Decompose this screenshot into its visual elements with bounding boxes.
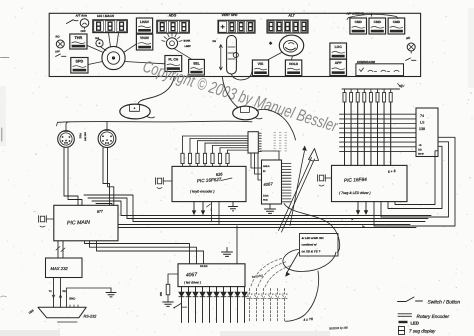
- legend LED: [399, 321, 419, 326]
- legend rotary encoder: [398, 314, 450, 319]
- IC U7 MAX232: [46, 258, 83, 278]
- svg-text:THR: THR: [74, 36, 82, 40]
- bus line b1: [121, 215, 431, 217]
- wire GND to DB9: [67, 288, 112, 307]
- label on U4 outs: [351, 218, 365, 229]
- bus line b4: [118, 224, 410, 226]
- resistor network RN1 (pull-ups) with fan-out wires: [181, 136, 248, 166]
- svg-text:IN: IN: [263, 170, 266, 173]
- A/P DISENGAGE label: [346, 12, 399, 20]
- svg-text:4 x Y6: 4 x Y6: [303, 317, 313, 322]
- wire loop n2: [381, 142, 449, 217]
- wire U1 data out a: [192, 202, 196, 216]
- svg-text:( led driver ): ( led driver ): [184, 281, 201, 285]
- button CMD R: [388, 18, 405, 34]
- svg-text:Copyright © 2003 by Manuel Bes: Copyright © 2003 by Manuel Bessler: [140, 57, 340, 136]
- svg-text:16ch: 16ch: [263, 195, 269, 198]
- left knob RO (panel): [55, 36, 66, 57]
- svg-text:4x LED w/WD 390: 4x LED w/WD 390: [302, 237, 324, 240]
- bus panel rows to U3: [340, 114, 417, 151]
- speed knob K1: [87, 33, 165, 70]
- crystal X2: [318, 175, 332, 186]
- wire loop n4: [395, 151, 438, 205]
- wire U5 to U6 a: [85, 241, 190, 264]
- note box: [300, 234, 339, 257]
- svg-text:ANLG: ANLG: [263, 165, 270, 168]
- V/S wheel: [213, 36, 253, 80]
- wire dashed led curves: [251, 258, 291, 287]
- MCP panel outline: [49, 13, 420, 76]
- button CMD L: [350, 18, 367, 34]
- svg-text:mini DIN: mini DIN: [84, 132, 87, 141]
- wire DIN1 stub: [66, 122, 70, 131]
- svg-text:SPD: SPD: [75, 60, 83, 64]
- svg-text:PIC 16F84: PIC 16F84: [344, 177, 368, 184]
- svg-text:DB9: DB9: [28, 308, 35, 315]
- svg-text:BANK: BANK: [184, 40, 191, 43]
- svg-text:PS/2: PS/2: [79, 133, 82, 139]
- button FL CH: [165, 56, 182, 72]
- bus corner c4: [96, 204, 112, 206]
- wire J1 to U2: [260, 151, 279, 160]
- wire U5 to MAX232 a: [56, 241, 60, 258]
- wire MAX232 Rx: [59, 278, 66, 308]
- connector DIN2 (PS/2): [98, 130, 116, 148]
- disengage bar: [356, 60, 404, 76]
- ground G4: [163, 302, 174, 307]
- svg-text:GND: GND: [69, 297, 75, 301]
- wire U5 to U6 b: [90, 241, 197, 264]
- svg-text:decdr: decdr: [418, 153, 424, 156]
- trackball mouse M1: [120, 104, 155, 119]
- button HOLD: [285, 60, 301, 76]
- svg-text:FL CH: FL CH: [168, 58, 178, 62]
- ground G3: [106, 288, 116, 297]
- svg-text:MAX 232: MAX 232: [51, 266, 69, 271]
- LED array (future) D11-D16 dashed: [247, 289, 287, 323]
- svg-text:( keyb encoder ): ( keyb encoder ): [190, 190, 215, 194]
- connector DIN1 (PS/2): [58, 131, 75, 148]
- legend 7seg: [399, 327, 437, 335]
- button LOC: [330, 43, 347, 59]
- svg-text:6 + 8: 6 + 8: [388, 169, 396, 174]
- svg-text:RO: RO: [56, 36, 60, 39]
- svg-text:ALT: ALT: [287, 14, 295, 18]
- wire DIN1 to PIC-main b: [68, 147, 82, 205]
- svg-text:CMD: CMD: [374, 20, 382, 24]
- svg-text:OFF: OFF: [55, 51, 60, 54]
- svg-text:4067: 4067: [186, 272, 198, 279]
- svg-text:LS: LS: [420, 121, 425, 125]
- wire DIN2 stub: [106, 122, 108, 130]
- VERT SPD display DS3: [218, 13, 255, 33]
- bus corner c2: [88, 198, 127, 219]
- svg-text:HOLD: HOLD: [289, 62, 299, 66]
- svg-text:RS-232: RS-232: [84, 315, 98, 319]
- legend switch: [398, 297, 461, 306]
- arrow thin: [290, 146, 307, 226]
- wire U4 out a: [356, 202, 360, 215]
- bus corner c3: [92, 201, 121, 216]
- wire U1 out d: [218, 202, 220, 225]
- wire U5 to U6 c: [97, 241, 204, 264]
- wire panel to trackball: [138, 77, 174, 104]
- U2 channel pins: [282, 164, 292, 202]
- bus line b5: [118, 227, 416, 229]
- wire PS/2 bus: [57, 121, 253, 126]
- svg-text:A/T Arm: A/T Arm: [75, 13, 88, 17]
- wire DIN2 to PIC-main a: [103, 148, 110, 206]
- svg-text:Dt: Dt: [362, 226, 365, 229]
- wire loop n1: [374, 137, 455, 226]
- label PS/2 mini-DIN: [79, 132, 87, 141]
- svg-text:PIC 16F627: PIC 16F627: [197, 177, 222, 184]
- svg-text:LOC: LOC: [335, 45, 343, 49]
- svg-text:VNAV: VNAV: [140, 36, 150, 40]
- crystal X3: [39, 216, 54, 227]
- button V/S: [252, 60, 268, 76]
- svg-text:CMD: CMD: [355, 20, 363, 24]
- ground under U2: [265, 204, 276, 213]
- IAS select knob: [95, 37, 103, 47]
- resistor network RN2 (display pull-ups): [343, 89, 392, 165]
- svg-text:4067: 4067: [263, 181, 273, 187]
- crystal X1: [156, 178, 173, 189]
- resistor R1 390: [159, 274, 178, 302]
- button LNAV: [136, 18, 152, 33]
- switch S2: [173, 304, 186, 309]
- svg-text:Switch / Button: Switch / Button: [428, 300, 461, 306]
- button VNAV: [136, 34, 152, 50]
- wire loop n3: [388, 146, 442, 208]
- signature: [329, 326, 348, 331]
- node mark: [269, 41, 273, 45]
- IAS/MACH display DS1: [93, 14, 128, 32]
- button THR: [70, 34, 87, 49]
- svg-text:05/2003 by MB: 05/2003 by MB: [329, 326, 348, 331]
- svg-text:VERT SPD: VERT SPD: [222, 13, 239, 17]
- HDG knob K2: [162, 33, 192, 59]
- IC U6 4067 (LED driver): [178, 264, 245, 287]
- svg-text:7 seg display: 7 seg display: [409, 329, 436, 334]
- button CMD C: [369, 18, 386, 34]
- wire bus to U6: [236, 226, 238, 264]
- button SPD: [71, 58, 88, 74]
- right knob RO (panel): [406, 37, 417, 61]
- svg-text:Rx: Rx: [63, 289, 67, 293]
- svg-text:Rotary Encoder: Rotary Encoder: [417, 314, 450, 319]
- IC U2 4067 (input mux): [262, 160, 282, 204]
- svg-text:combined w/: combined w/: [302, 244, 317, 247]
- bus corner c1: [84, 195, 133, 222]
- svg-text:390: 390: [159, 292, 162, 297]
- svg-text:DN: DN: [213, 40, 217, 43]
- svg-text:877: 877: [97, 209, 104, 214]
- svg-text:Tx: Tx: [49, 289, 53, 293]
- wire feeds to U2 b: [255, 153, 262, 174]
- IC U5 PIC MAIN: [54, 205, 118, 241]
- svg-text:IAS / MACH: IAS / MACH: [97, 14, 115, 18]
- button HDG SEL: [189, 59, 205, 75]
- ground G5: [222, 248, 233, 257]
- pin header J1: [248, 132, 287, 153]
- ground under U1: [229, 202, 238, 211]
- bus line b3: [133, 221, 425, 223]
- wires RN2 to U4: [345, 102, 391, 165]
- label future LEDs: [252, 273, 264, 279]
- wire feeds to U2 c: [258, 153, 262, 180]
- svg-text:OFF: OFF: [81, 30, 87, 33]
- wire U1 data out b: [201, 202, 205, 216]
- svg-text:SEL: SEL: [193, 61, 200, 65]
- svg-text:D0-D3: D0-D3: [200, 265, 208, 268]
- wire note lasso: [283, 204, 340, 322]
- svg-text:LNAV: LNAV: [140, 20, 150, 24]
- bus width mark: [207, 204, 213, 212]
- LED array D1-D10: [179, 287, 247, 323]
- IC U1 PIC 16F626 (keyboard encoder): [172, 166, 246, 201]
- ALT knob K3: [268, 35, 304, 60]
- connector J2 DB9 RS-232: [28, 305, 97, 322]
- svg-text:mux: mux: [263, 199, 268, 202]
- svg-text:HDG: HDG: [169, 14, 177, 18]
- svg-text:74: 74: [420, 114, 424, 118]
- svg-text:+5: +5: [419, 144, 423, 147]
- arrow note to leds: [285, 253, 298, 277]
- svg-text:LED: LED: [411, 321, 419, 326]
- IC U3 74LS138 (decoder): [416, 108, 438, 157]
- svg-text:on X6 & Y6 ?: on X6 & Y6 ?: [302, 250, 321, 254]
- wire mouse M2 cable right: [257, 109, 296, 140]
- svg-text:APP: APP: [335, 61, 343, 65]
- wire U4 out b: [364, 202, 368, 215]
- bus line b2: [127, 218, 428, 220]
- svg-text:V/S: V/S: [258, 62, 264, 66]
- trackball mouse M2: [233, 106, 262, 120]
- svg-text:3:8: 3:8: [418, 149, 422, 152]
- wire mouse M2 cable to panel: [222, 77, 238, 107]
- svg-text:RO: RO: [406, 37, 411, 41]
- svg-text:LIMIT: LIMIT: [185, 45, 192, 48]
- ALT display DS4: [267, 14, 308, 34]
- wire MAX232 Tx: [49, 278, 55, 308]
- wire U5 to MAX232 b: [61, 241, 65, 258]
- button APP: [330, 59, 347, 75]
- IC U4 PIC 16F84 (7seg & LED driver): [332, 165, 408, 201]
- wire DIN1 to PIC-main a: [64, 147, 78, 205]
- svg-text:CMD: CMD: [393, 20, 401, 24]
- svg-text:PIC MAIN: PIC MAIN: [67, 220, 91, 227]
- watermark: [140, 57, 340, 136]
- scan artifact marks: [1, 58, 10, 298]
- wire DIN2 to PIC-main b: [108, 148, 114, 206]
- wire U1 out c: [211, 202, 213, 222]
- power +5V node: [342, 84, 405, 90]
- HDG display DS2: [157, 14, 190, 34]
- arrow big outline: [279, 149, 319, 233]
- wire feeds to U2 a: [251, 153, 262, 168]
- A/T arm switch S1: [67, 13, 89, 33]
